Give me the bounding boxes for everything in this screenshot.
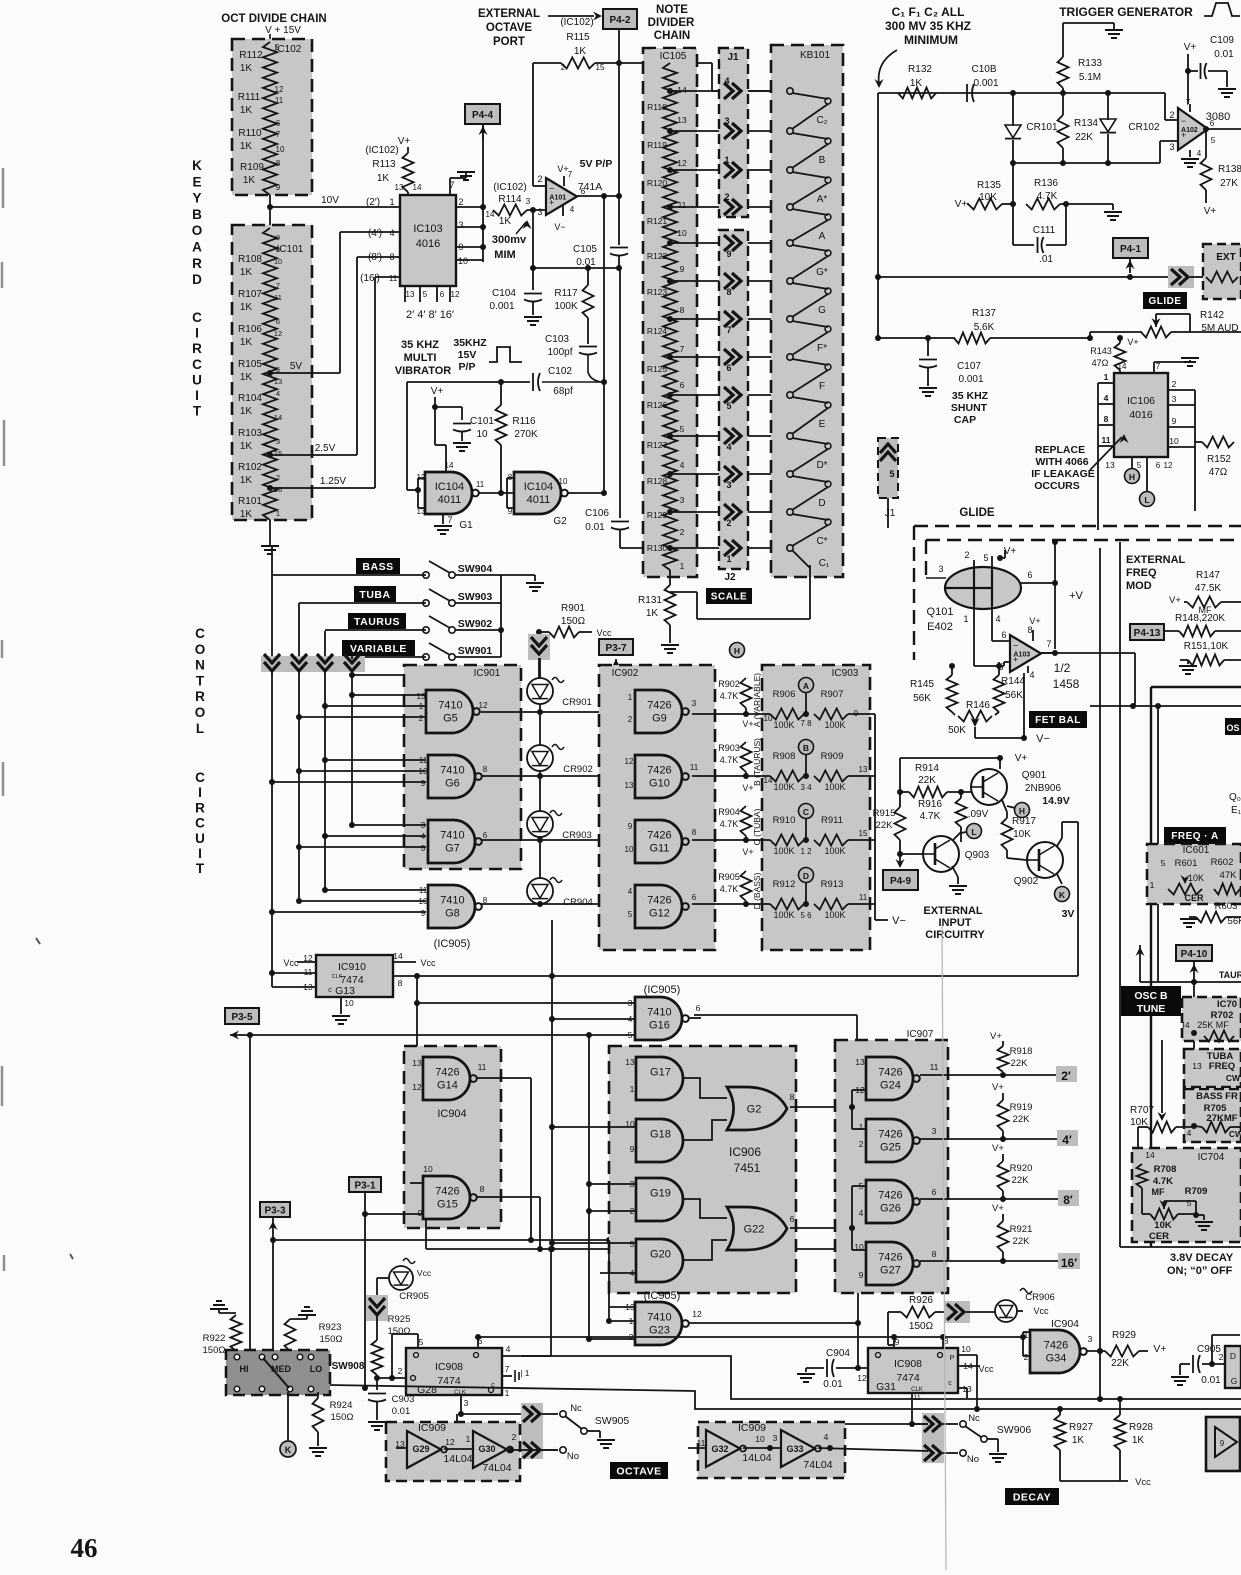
svg-text:MOD: MOD [1126, 580, 1152, 592]
svg-text:A (VARIABLE): A (VARIABLE) [752, 673, 762, 727]
svg-text:11: 11 [274, 293, 282, 302]
svg-text:HI: HI [240, 1364, 249, 1374]
IC901 box 7410 gates [404, 665, 521, 869]
svg-text:7426: 7426 [878, 1067, 902, 1079]
svg-text:0.001: 0.001 [489, 301, 514, 312]
Q903 emitter ground [952, 866, 958, 877]
svg-text:Vcc: Vcc [420, 958, 436, 968]
svg-text:4.7K: 4.7K [1037, 191, 1058, 202]
svg-text:R708: R708 [1154, 1164, 1177, 1175]
wire clock to G34 inputs [1020, 1334, 1026, 1340]
svg-text:C: C [192, 310, 202, 325]
arrow to P4-2 [548, 15, 594, 17]
switch SW906 chevrons [922, 1413, 944, 1463]
svg-text:4′: 4′ [1062, 1133, 1072, 1147]
svg-text:15: 15 [859, 829, 868, 838]
svg-text:100K: 100K [824, 910, 845, 920]
svg-text:4.7K: 4.7K [1153, 1176, 1173, 1187]
svg-text:9: 9 [854, 709, 859, 718]
KB101 key contact A [787, 204, 793, 210]
svg-text:13: 13 [417, 692, 426, 701]
KB101 key contact B [787, 128, 793, 134]
svg-text:1K: 1K [1072, 1435, 1085, 1446]
svg-text:R143: R143 [1090, 346, 1112, 356]
svg-text:6: 6 [692, 893, 697, 902]
svg-text:R707: R707 [1130, 1105, 1154, 1116]
Q903 base wire [897, 851, 903, 857]
svg-text:2NB906: 2NB906 [1025, 783, 1062, 794]
partial gate box bottom right [1206, 1417, 1240, 1471]
op-amp A102 3080 [1178, 108, 1208, 150]
svg-text:G33: G33 [786, 1444, 803, 1454]
svg-text:35 KHZ: 35 KHZ [952, 390, 989, 402]
svg-text:G1: G1 [459, 520, 473, 531]
output row 16prime [920, 1260, 1003, 1262]
svg-text:Vcc: Vcc [596, 628, 612, 638]
svg-text:A101: A101 [549, 195, 566, 202]
svg-text:(IC102): (IC102) [493, 182, 526, 193]
svg-text:14: 14 [1118, 362, 1127, 371]
svg-text:1K: 1K [240, 63, 253, 74]
svg-text:G13: G13 [335, 985, 355, 997]
svg-text:7426: 7426 [878, 1252, 902, 1264]
op-amp 1/2 1458 [992, 640, 1010, 642]
svg-text:VARIABLE: VARIABLE [350, 643, 407, 655]
svg-text:Q903: Q903 [965, 850, 990, 861]
svg-text:IC908: IC908 [435, 1361, 463, 1373]
svg-text:7474: 7474 [896, 1372, 920, 1384]
svg-text:V+: V+ [1029, 616, 1040, 626]
multivibrator top wire with C102 [407, 381, 530, 383]
svg-text:4.7K: 4.7K [920, 811, 941, 822]
flip-flop IC908 7474 G28 [406, 1348, 502, 1395]
svg-text:1K: 1K [240, 509, 253, 520]
NAND gate G7 7410 [428, 820, 475, 863]
svg-text:PORT: PORT [493, 36, 525, 48]
svg-text:R918: R918 [1010, 1046, 1033, 1057]
svg-text:11: 11 [913, 1393, 921, 1402]
svg-text:R118: R118 [647, 102, 667, 112]
svg-text:IC909: IC909 [418, 1422, 446, 1434]
svg-text:Vcc: Vcc [1033, 1306, 1049, 1316]
NAND gate G26 7426 [866, 1180, 913, 1223]
svg-text:15: 15 [274, 449, 282, 458]
long bus wire A y1399 [502, 1356, 1241, 1399]
long wire y1240 [273, 1239, 609, 1241]
svg-text:C₁ F₁ C₂ ALL: C₁ F₁ C₂ ALL [892, 5, 965, 19]
NAND gate G14 7426 [423, 1057, 470, 1100]
svg-text:22K: 22K [1013, 1114, 1031, 1125]
svg-text:11: 11 [859, 893, 868, 902]
svg-text:0.01: 0.01 [585, 522, 605, 533]
svg-text:7: 7 [447, 515, 452, 525]
KB101 key contact E [787, 392, 793, 398]
NAND gate G9 7426 [635, 690, 682, 733]
svg-text:16: 16 [274, 485, 282, 494]
svg-text:1: 1 [466, 1434, 471, 1444]
pot R142 5M AUD [1090, 331, 1142, 333]
svg-text:7426: 7426 [435, 1186, 459, 1198]
AND gate G17 [636, 1057, 683, 1100]
svg-text:TUBA: TUBA [359, 589, 390, 601]
svg-text:14L04: 14L04 [443, 1453, 472, 1465]
svg-text:(8′): (8′) [368, 252, 382, 263]
svg-text:KB101: KB101 [800, 50, 830, 61]
G15 output [477, 1196, 540, 1198]
svg-text:7410: 7410 [440, 895, 464, 907]
svg-text:0.01: 0.01 [392, 1406, 411, 1417]
pulse glyph top right corner [1204, 3, 1240, 16]
svg-text:1K: 1K [240, 302, 253, 313]
Q902 collector wire [1057, 838, 1062, 846]
glide dashed box outer [914, 525, 1241, 527]
svg-text:4: 4 [824, 1432, 829, 1442]
chevron NC sw905 [521, 1403, 543, 1459]
capacitor C104 0.001 [532, 210, 534, 290]
svg-text:1K: 1K [574, 46, 587, 57]
long wire y1035 [230, 1031, 239, 1040]
svg-text:IC105: IC105 [660, 51, 687, 62]
svg-text:R917: R917 [1012, 816, 1036, 827]
svg-text:22K: 22K [1012, 1175, 1030, 1186]
svg-text:8: 8 [1027, 625, 1032, 635]
svg-text:G8: G8 [445, 908, 460, 920]
svg-text:9: 9 [628, 822, 633, 831]
svg-text:F*: F* [817, 343, 827, 354]
svg-text:G29: G29 [412, 1444, 429, 1454]
svg-text:9: 9 [859, 1270, 864, 1280]
IC106 4016 glide switch [1114, 373, 1168, 457]
resistor R116 270K [496, 405, 507, 445]
svg-text:+V: +V [1069, 590, 1083, 602]
svg-text:G7: G7 [445, 843, 460, 855]
svg-text:C: C [195, 816, 205, 831]
svg-text:6: 6 [1001, 630, 1006, 640]
op-amp A101 741A [546, 178, 577, 215]
svg-text:R603: R603 [1215, 901, 1238, 912]
svg-text:6: 6 [726, 363, 731, 373]
svg-text:5: 5 [1137, 461, 1142, 470]
chevron down CR905 [366, 1295, 388, 1321]
inverter G30 74L04 [473, 1431, 507, 1468]
svg-text:7: 7 [1156, 362, 1161, 371]
svg-text:270K: 270K [514, 429, 538, 440]
svg-text:4: 4 [726, 442, 731, 452]
svg-text:100pf: 100pf [547, 347, 572, 358]
resistor R602 [1214, 884, 1240, 895]
svg-text:CLK: CLK [454, 1390, 466, 1396]
svg-text:C109: C109 [1210, 35, 1234, 46]
svg-text:150Ω: 150Ω [909, 1321, 934, 1332]
svg-text:OCCURS: OCCURS [1034, 480, 1080, 492]
svg-text:C: C [803, 807, 809, 817]
svg-text:4: 4 [1197, 149, 1202, 158]
svg-text:R135: R135 [977, 180, 1001, 191]
svg-text:G2: G2 [553, 516, 567, 527]
switch common ground [501, 574, 535, 576]
svg-text:6: 6 [276, 119, 281, 128]
svg-text:3: 3 [938, 564, 943, 574]
svg-text:D*: D* [816, 460, 827, 471]
svg-text:10V: 10V [321, 195, 339, 206]
LED CR905 [403, 1259, 415, 1264]
svg-text:15V: 15V [458, 349, 477, 361]
svg-text:1K: 1K [240, 441, 253, 452]
G34 output and R929 22K [1087, 1350, 1105, 1352]
KB101 key contact F* [787, 316, 793, 322]
svg-text:6: 6 [1027, 570, 1032, 580]
svg-text:1K: 1K [240, 105, 253, 116]
svg-text:R903: R903 [718, 743, 740, 753]
resistor R917 10K [1002, 800, 1007, 812]
svg-text:C: C [192, 357, 202, 372]
svg-text:MED: MED [271, 1364, 292, 1374]
long wire y1249 [426, 1248, 858, 1250]
svg-text:Q902: Q902 [1014, 876, 1039, 887]
OSC A box outline [1151, 686, 1241, 688]
svg-text:4016: 4016 [1129, 409, 1153, 421]
svg-text:11: 11 [690, 763, 699, 772]
svg-text:1K: 1K [240, 141, 253, 152]
svg-text:6: 6 [440, 290, 445, 299]
G14 output wire [477, 1077, 531, 1079]
svg-text:.09V: .09V [968, 809, 989, 820]
svg-text:V−: V− [554, 222, 565, 232]
svg-text:2: 2 [726, 518, 731, 528]
chevron to CR906 [935, 1311, 944, 1313]
wire TAURUS row [325, 629, 426, 631]
svg-text:47Ω: 47Ω [1092, 358, 1109, 368]
circled node C [799, 804, 814, 819]
svg-text:1: 1 [505, 1388, 510, 1398]
svg-text:J2: J2 [724, 572, 736, 583]
svg-text:3: 3 [680, 495, 685, 505]
svg-text:1K: 1K [377, 173, 390, 184]
svg-text:CAP: CAP [954, 414, 976, 426]
svg-text:8: 8 [480, 1184, 485, 1194]
NAND gate G12 7426 [635, 885, 682, 928]
svg-text:R115: R115 [566, 32, 590, 43]
svg-text:E: E [819, 419, 826, 430]
svg-text:CR903: CR903 [562, 830, 592, 841]
four bus chevrons down [261, 656, 365, 672]
transistor Q901 2N3906 [971, 769, 1007, 805]
IC106 right pins [1168, 389, 1195, 391]
label OSC B TUNE [1121, 986, 1181, 1016]
svg-text:7474: 7474 [437, 1375, 461, 1387]
svg-text:A103: A103 [1013, 652, 1030, 659]
OR gate G22 [727, 1207, 787, 1250]
svg-text:0.001: 0.001 [958, 374, 983, 385]
svg-text:5: 5 [423, 290, 428, 299]
G16 output wire to IC907 [689, 1017, 701, 1019]
svg-text:6: 6 [680, 380, 685, 390]
IC906 7451 box [609, 1046, 796, 1293]
connector P4-13 [1130, 624, 1164, 640]
svg-text:16′: 16′ [1061, 1256, 1077, 1270]
svg-text:12: 12 [412, 1082, 422, 1092]
svg-text:V+: V+ [1169, 595, 1181, 606]
connector J2 lower [719, 230, 748, 569]
svg-text:R914: R914 [915, 763, 939, 774]
svg-text:IC904: IC904 [1051, 1318, 1079, 1330]
svg-text:B: B [819, 155, 826, 166]
NAND gate G24 7426 [866, 1057, 913, 1100]
svg-text:C103: C103 [545, 334, 569, 345]
svg-text:2: 2 [458, 197, 463, 207]
NAND gate G1 IC104 4011 [435, 444, 446, 446]
svg-text:C904: C904 [826, 1348, 850, 1359]
svg-text:13: 13 [274, 377, 282, 386]
svg-text:CR101: CR101 [1026, 122, 1058, 133]
svg-text:3 4: 3 4 [800, 783, 812, 792]
svg-text:10K: 10K [1013, 829, 1031, 840]
pulse waveform glyph [489, 347, 522, 362]
label TAURUS [348, 613, 406, 629]
svg-text:4: 4 [1104, 393, 1109, 403]
svg-text:R901: R901 [561, 603, 585, 614]
svg-text:R601: R601 [1175, 858, 1198, 869]
svg-text:V+: V+ [990, 1031, 1002, 1042]
svg-text:A*: A* [817, 194, 828, 205]
svg-text:R147: R147 [1196, 570, 1220, 581]
svg-text:T: T [196, 861, 205, 876]
IC101 resistor box [232, 225, 312, 520]
svg-text:10: 10 [423, 1164, 433, 1174]
svg-text:V+: V+ [992, 1143, 1004, 1154]
svg-text:1K: 1K [240, 406, 253, 417]
svg-text:P4-2: P4-2 [609, 15, 631, 26]
svg-text:J1: J1 [885, 508, 896, 519]
IC907 box 7426 gates [835, 1040, 948, 1293]
svg-text:1.25V: 1.25V [320, 476, 346, 487]
IC902 box 7426 gates [599, 665, 715, 950]
svg-text:10: 10 [1169, 436, 1179, 446]
svg-text:MF: MF [1152, 1187, 1165, 1197]
IC103 bottom pins [404, 286, 406, 302]
svg-text:EXTERNAL: EXTERNAL [923, 905, 983, 917]
svg-text:8: 8 [790, 1092, 795, 1102]
svg-text:R102: R102 [238, 462, 262, 473]
svg-text:G26: G26 [880, 1203, 901, 1215]
svg-text:2′: 2′ [1061, 1069, 1071, 1083]
svg-text:FREQ · A: FREQ · A [1171, 831, 1219, 842]
wire opamp output 5V P/P [577, 195, 620, 197]
svg-text:5: 5 [628, 910, 633, 919]
svg-text:K: K [1059, 890, 1066, 900]
svg-text:7410: 7410 [647, 1312, 671, 1324]
svg-text:6: 6 [483, 831, 488, 840]
svg-text:TUNE: TUNE [1137, 1003, 1166, 1015]
svg-text:IC70: IC70 [1217, 999, 1237, 1010]
switch SW908 HI MED LO [226, 1350, 330, 1395]
svg-text:G9: G9 [652, 713, 667, 725]
row wires G5-G8 outputs through CR diodes to IC902 [481, 711, 627, 713]
svg-text:Vcc: Vcc [283, 958, 299, 968]
svg-text:12: 12 [625, 757, 634, 766]
svg-text:G30: G30 [478, 1444, 495, 1454]
svg-text:CR906: CR906 [1025, 1292, 1055, 1303]
svg-text:9: 9 [421, 779, 426, 788]
svg-text:R151,10K: R151,10K [1184, 641, 1229, 652]
svg-text:H: H [734, 646, 740, 656]
svg-text:P4-10: P4-10 [1181, 949, 1208, 960]
svg-text:1K: 1K [240, 372, 253, 383]
svg-text:R144: R144 [1001, 676, 1025, 687]
Q101 pin2 [973, 560, 975, 570]
svg-text:R107: R107 [238, 289, 262, 300]
svg-text:5: 5 [726, 401, 731, 411]
svg-text:3: 3 [537, 207, 542, 217]
label OCTAVE [610, 1462, 668, 1479]
svg-text:9: 9 [1172, 416, 1177, 426]
svg-text:9: 9 [630, 1144, 635, 1154]
svg-text:E₁: E₁ [1231, 805, 1241, 816]
wire octave port line [533, 62, 561, 64]
svg-text:6: 6 [581, 187, 586, 196]
resistor chain IC102 zigzag [263, 42, 277, 195]
svg-text:G10: G10 [649, 778, 670, 790]
KB101 key contact C₂ [787, 88, 793, 94]
G30 output wire [510, 1449, 558, 1451]
svg-text:R138: R138 [1218, 164, 1241, 175]
svg-text:G15: G15 [437, 1199, 458, 1211]
label OSC partial [1225, 718, 1241, 735]
svg-text:7410: 7410 [440, 765, 464, 777]
svg-text:C111: C111 [1033, 225, 1056, 236]
svg-text:1 2: 1 2 [800, 847, 812, 856]
svg-text:3: 3 [464, 1398, 469, 1408]
svg-text:U: U [195, 831, 205, 846]
resistor chain IC101 zigzag [263, 228, 277, 520]
svg-text:A102: A102 [1181, 127, 1198, 134]
svg-text:R908: R908 [773, 751, 796, 762]
svg-text:CHAIN: CHAIN [654, 30, 690, 42]
svg-text:OCTAVE: OCTAVE [616, 1465, 661, 1477]
svg-text:NOTE: NOTE [656, 4, 688, 16]
svg-text:1: 1 [1150, 880, 1155, 890]
svg-text:11: 11 [697, 1438, 706, 1448]
AND gate G18 [636, 1119, 683, 1162]
svg-text:5: 5 [1211, 136, 1216, 145]
long bus wire B y1409 [330, 1385, 1241, 1409]
svg-text:2: 2 [628, 715, 633, 724]
svg-text:7: 7 [568, 170, 573, 179]
svg-text:O: O [195, 642, 206, 657]
svg-text:10: 10 [276, 145, 285, 154]
resistor R925 150ohm [372, 1340, 383, 1375]
svg-text:13: 13 [1105, 460, 1115, 470]
svg-text:C: C [195, 770, 205, 785]
svg-text:8: 8 [1104, 414, 1109, 424]
svg-text:CR902: CR902 [563, 764, 593, 775]
svg-text:6: 6 [276, 317, 280, 326]
svg-text:2: 2 [512, 1432, 517, 1442]
svg-text:A: A [803, 681, 809, 691]
svg-text:1: 1 [630, 1084, 635, 1094]
switch SW904 [423, 572, 429, 578]
svg-text:6: 6 [932, 1187, 937, 1197]
svg-text:C₁: C₁ [819, 558, 830, 569]
svg-text:SHUNT: SHUNT [951, 402, 988, 414]
svg-text:1: 1 [859, 1122, 864, 1132]
svg-text:7: 7 [276, 130, 281, 139]
svg-text:R112: R112 [239, 50, 263, 61]
svg-text:4.7K: 4.7K [720, 755, 739, 765]
left rail down [877, 93, 879, 338]
svg-text:G17: G17 [650, 1067, 671, 1079]
svg-text:8: 8 [398, 978, 403, 988]
